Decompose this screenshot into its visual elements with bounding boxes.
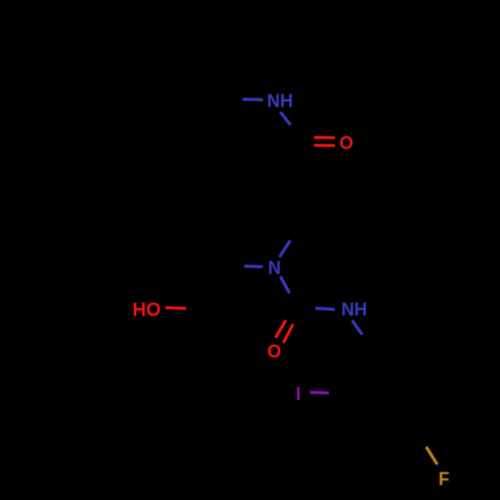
svg-text:NH: NH [267,91,293,111]
wire: bond anilide NH to aryl C1 half [352,320,362,334]
wire: bond carbamoyl C to anilide N half [315,308,334,309]
wire: bond ring N left half [244,265,262,269]
wire: bond C-N half (methyl to amide NH), top left [243,98,264,102]
svg-text:O: O [267,341,281,361]
wire: C=O double bond halves, top amide [314,137,335,145]
wire: carbamoyl C=O double bond halves [276,320,294,343]
svg-text:HO: HO [132,300,161,321]
wire: bond ring N down to carbamoyl C half [280,276,289,293]
wire: bond F to aryl C4 half [426,447,437,465]
svg-text:O: O [339,133,353,153]
wire: bond O-CH2 half (hydroxyl) [166,306,187,310]
svg-text:I: I [296,384,301,404]
wire: bond I to aryl C2 half [310,391,329,395]
wire: bond ring N up-right half [280,240,291,257]
wire: bond NH to carbonyl C half [280,112,290,125]
svg-text:NH: NH [341,300,367,320]
svg-text:N: N [268,258,281,278]
svg-text:F: F [439,469,450,489]
